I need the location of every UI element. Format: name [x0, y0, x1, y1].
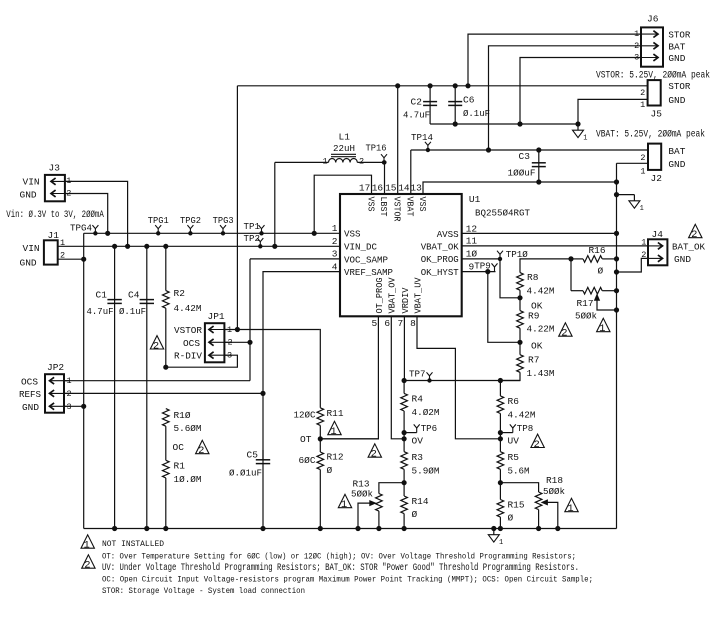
- label J4 GND: [674, 254, 691, 265]
- pin number L1-1: [323, 157, 328, 167]
- svg-text:2: 2: [84, 560, 90, 572]
- svg-text:R11: R11: [327, 408, 344, 419]
- pin number J4-1: [641, 237, 646, 247]
- U1 pin label VBAT (14): [405, 197, 416, 217]
- wire U1 pin15 VSTOR stub: [396, 84, 400, 194]
- pin number J5-1: [640, 100, 645, 110]
- label JP2: [47, 362, 64, 373]
- value R4 4.02M: [412, 407, 440, 418]
- wire VBAT rail: [411, 149, 648, 151]
- resistor R14: [401, 483, 408, 531]
- label J1 VIN: [23, 243, 40, 254]
- pin number JP1-2: [228, 338, 233, 348]
- svg-text:TP16: TP16: [366, 143, 387, 154]
- wire R8 top to R16 node: [520, 257, 573, 273]
- label C3: [519, 151, 531, 162]
- R17 wiper arrow: [595, 295, 619, 313]
- value C1 4.7uF: [87, 306, 114, 317]
- svg-text:2: 2: [332, 236, 338, 247]
- pin number J4-2: [641, 250, 646, 260]
- svg-text:3: 3: [332, 249, 338, 260]
- capacitor C1: [107, 244, 121, 530]
- pin number U1-5: [371, 318, 377, 329]
- label J4 BAT_OK: [672, 241, 705, 252]
- svg-text:Ø.1uF: Ø.1uF: [119, 306, 146, 317]
- test point TP16: [366, 143, 388, 165]
- svg-text:8: 8: [410, 318, 416, 329]
- svg-text:J1: J1: [48, 230, 60, 241]
- value R2 4.42M: [174, 303, 202, 314]
- svg-text:15: 15: [385, 183, 397, 194]
- U1 pin label VOC_SAMP: [344, 254, 388, 265]
- wire OT row: [320, 438, 378, 440]
- svg-text:BAT_OK: BAT_OK: [672, 241, 705, 252]
- IC U1 BQ25504RGT box: [340, 194, 462, 316]
- pin number JP2-1: [67, 376, 72, 386]
- svg-text:STOR: STOR: [668, 81, 690, 92]
- label R7: [528, 354, 539, 365]
- not-installed triangle 2 near R2: [150, 336, 163, 353]
- label C4: [128, 290, 140, 301]
- test point TPG4: [70, 223, 98, 235]
- svg-text:C3: C3: [519, 151, 531, 162]
- value C6 0.1uF: [463, 108, 490, 119]
- svg-text:GND: GND: [674, 254, 691, 265]
- svg-text:1: 1: [323, 157, 328, 167]
- test point TPG1: [148, 215, 169, 235]
- svg-text:1: 1: [84, 540, 90, 552]
- node OV label: [412, 436, 424, 447]
- label C5: [247, 450, 259, 461]
- connector J5: [648, 80, 661, 105]
- resistor R3: [401, 433, 408, 485]
- wire OK_PROG drop to R8 bottom: [500, 259, 520, 298]
- pin number U1-11: [466, 236, 478, 247]
- svg-text:VIN: VIN: [23, 243, 40, 254]
- wire OK_HYST drop to OK node: [488, 272, 520, 343]
- label J1: [48, 230, 60, 241]
- label R12: [327, 452, 344, 463]
- label R8: [527, 272, 539, 283]
- svg-text:VBAT_OV: VBAT_OV: [387, 277, 398, 313]
- svg-text:17: 17: [359, 183, 370, 194]
- label J2: [651, 173, 663, 184]
- value R5 5.6M: [508, 465, 530, 476]
- wire U1 pin11 VBAT_OK to J4: [462, 245, 648, 247]
- svg-text:TP7: TP7: [409, 369, 426, 380]
- U1 pin label VSS (17): [365, 197, 376, 212]
- svg-text:TP8: TP8: [517, 423, 534, 434]
- value R16 0: [598, 266, 604, 277]
- svg-text:TPG4: TPG4: [70, 223, 92, 234]
- svg-text:VBAT: VBAT: [405, 197, 416, 217]
- label J4: [652, 229, 664, 240]
- svg-text:R-DIV: R-DIV: [174, 351, 202, 362]
- svg-text:R4: R4: [412, 394, 424, 405]
- svg-text:5ØØk: 5ØØk: [543, 486, 565, 497]
- test point TP8: [500, 423, 533, 434]
- svg-text:TPG1: TPG1: [148, 215, 169, 226]
- svg-text:TP9: TP9: [474, 261, 491, 272]
- U1 pin label OT_PROG (5): [374, 277, 385, 313]
- svg-text:2: 2: [198, 445, 204, 457]
- label J5 GND: [668, 95, 685, 106]
- pin number J3-2: [66, 188, 71, 198]
- U1 pin label VREF_SAMP: [344, 267, 393, 278]
- connector JP2: [45, 374, 70, 413]
- svg-text:R9: R9: [528, 310, 540, 321]
- svg-text:VSS: VSS: [365, 197, 376, 212]
- wire U1 pin7 VRDIV to TP7 row: [403, 316, 405, 380]
- value L1 22uH: [333, 143, 355, 154]
- label J3 VIN: [23, 177, 40, 188]
- connector J3: [45, 175, 72, 201]
- svg-text:OT: Over Temperature Setting f: OT: Over Temperature Setting for 6ØC (lo…: [102, 552, 576, 562]
- svg-text:TPG3: TPG3: [213, 215, 234, 226]
- svg-text:2: 2: [533, 439, 539, 451]
- value C2 4.7uF: [403, 110, 430, 121]
- svg-text:GND: GND: [22, 402, 39, 413]
- connector J2: [648, 144, 661, 170]
- label JP1: [208, 311, 225, 322]
- svg-text:OK_HYST: OK_HYST: [421, 267, 459, 278]
- svg-text:2: 2: [561, 328, 567, 340]
- label J6: [647, 14, 659, 25]
- pin number JP1-1: [227, 325, 232, 335]
- pin number U1-9: [469, 261, 475, 272]
- pin number U1-7: [397, 318, 403, 329]
- svg-text:TP2: TP2: [244, 233, 261, 244]
- note VBAT rating: [596, 129, 705, 141]
- wire JP1 pin3 to R2/R10 junction: [166, 355, 238, 367]
- value R14 0: [412, 509, 418, 520]
- label R11: [327, 408, 344, 419]
- svg-text:R12: R12: [327, 452, 344, 463]
- capacitor C5: [256, 450, 270, 531]
- not-installed triangle 1 near R13: [338, 494, 351, 511]
- pin number U1-4: [332, 261, 338, 272]
- wire J6 pin3 to ground line: [518, 58, 641, 127]
- svg-text:OK: OK: [531, 340, 543, 351]
- test point TP14: [411, 132, 433, 152]
- pin number U1-8: [410, 318, 416, 329]
- label 60C: [299, 455, 316, 466]
- resistor R8: [517, 273, 524, 300]
- svg-text:OC: Open Circuit Input Voltage: OC: Open Circuit Input Voltage-resistors…: [102, 575, 593, 585]
- svg-text:STOR: Storage Voltage - System: STOR: Storage Voltage - System load conn…: [102, 586, 305, 596]
- svg-text:Ø: Ø: [598, 266, 604, 277]
- U1 pin label VBAT_OV (6): [387, 277, 398, 313]
- wire J3 pin2 to GND row: [65, 194, 110, 236]
- capacitor C6: [448, 84, 462, 126]
- connector JP1: [205, 323, 232, 362]
- svg-text:BAT: BAT: [668, 41, 685, 52]
- U1 pin label VSS: [344, 229, 361, 240]
- note line 1: [102, 552, 576, 562]
- label R3: [412, 452, 424, 463]
- svg-text:JP2: JP2: [47, 362, 64, 373]
- wire JP2 pin3 to GND vertical: [64, 404, 86, 408]
- svg-text:R2: R2: [174, 288, 186, 299]
- svg-text:OK_PROG: OK_PROG: [421, 254, 459, 265]
- label L1: [339, 132, 351, 143]
- test point TPG2: [180, 215, 201, 235]
- value R10 5.60M: [174, 423, 202, 434]
- test point TP10: [497, 249, 528, 261]
- not-installed triangle 1 near R11: [328, 421, 341, 438]
- resistor R4: [401, 381, 408, 435]
- pin number L1-2: [359, 157, 364, 167]
- svg-text:R8: R8: [527, 272, 539, 283]
- wire VSTOR rail: [237, 85, 647, 87]
- label R4: [412, 394, 424, 405]
- svg-text:VBAT_UV: VBAT_UV: [412, 277, 423, 313]
- wire L1 to U1 pin16 (LBST): [383, 161, 386, 194]
- svg-text:6: 6: [384, 318, 390, 329]
- label J6 BAT: [668, 41, 685, 52]
- label J5: [651, 109, 663, 120]
- svg-text:OCS: OCS: [183, 338, 200, 349]
- svg-text:LBST: LBST: [378, 197, 389, 217]
- svg-text:VRDIV: VRDIV: [400, 287, 411, 313]
- resistor R10: [163, 409, 170, 531]
- label J6 STOR: [668, 30, 690, 41]
- capacitor C2: [423, 84, 437, 124]
- svg-text:U1: U1: [469, 194, 481, 205]
- svg-text:1: 1: [640, 100, 645, 110]
- svg-text:C6: C6: [463, 95, 475, 106]
- svg-text:2: 2: [359, 157, 364, 167]
- svg-text:BQ255Ø4RGT: BQ255Ø4RGT: [475, 207, 530, 218]
- pin number U1-1: [332, 223, 338, 234]
- wire JP2 pin2 REFS row: [64, 391, 265, 395]
- node OK lower label: [531, 340, 543, 351]
- pin number J1-1: [60, 238, 65, 248]
- pin number U1-10: [466, 249, 478, 260]
- label J6 GND: [668, 53, 685, 64]
- svg-text:1: 1: [641, 237, 646, 247]
- not-installed triangle 1 near R18: [565, 498, 578, 515]
- svg-text:BAT: BAT: [668, 146, 685, 157]
- svg-text:J5: J5: [651, 109, 663, 120]
- label U1: [469, 194, 481, 205]
- node OT label: [300, 434, 312, 445]
- value R9 4.22M: [527, 324, 555, 335]
- wire U1 pin12 AVSS to bus: [462, 231, 619, 235]
- wire U1 pin8 to UV node: [417, 316, 503, 441]
- resistor R18 potentiometer: [535, 492, 542, 531]
- svg-text:L1: L1: [339, 132, 351, 143]
- value R18 500k: [543, 486, 565, 497]
- label R16: [589, 245, 606, 256]
- label R15: [508, 500, 525, 511]
- svg-text:5: 5: [371, 318, 377, 329]
- label JP2 OCS: [21, 376, 38, 387]
- svg-text:OCS: OCS: [21, 376, 38, 387]
- wire J6 pin1 to VSTOR rail: [466, 34, 641, 88]
- svg-text:C4: C4: [128, 290, 140, 301]
- U1 pin label VSTOR (15): [392, 197, 403, 222]
- svg-text:1ØØuF: 1ØØuF: [508, 168, 536, 179]
- svg-text:1: 1: [567, 503, 573, 515]
- value R15 0: [508, 513, 514, 524]
- svg-text:6ØC: 6ØC: [299, 455, 316, 466]
- wire U1 pin10 OK_PROG: [462, 258, 500, 260]
- svg-text:4.7uF: 4.7uF: [87, 306, 114, 317]
- svg-text:R15: R15: [508, 500, 525, 511]
- wire U1 pin5 to OT node: [318, 316, 378, 441]
- wire J4 pin2 to bus: [614, 258, 648, 274]
- svg-text:1: 1: [583, 135, 587, 143]
- svg-text:14: 14: [398, 183, 410, 194]
- wire U1 pin17 VSS loop to row A: [312, 175, 371, 235]
- wire bottom GND rail: [84, 528, 617, 530]
- wire R16 left link: [571, 259, 583, 291]
- label J2 GND: [668, 159, 685, 170]
- svg-text:C2: C2: [411, 96, 423, 107]
- svg-text:Ø: Ø: [412, 509, 418, 520]
- resistor R11: [317, 408, 324, 439]
- svg-text:VSS: VSS: [344, 229, 361, 240]
- svg-text:1: 1: [330, 426, 336, 438]
- pin number J6-3: [634, 53, 639, 63]
- wire R5/R15 junction to R18: [500, 483, 538, 492]
- resistor R9: [517, 298, 524, 345]
- pin number U1-13: [410, 183, 422, 194]
- svg-text:VIN: VIN: [23, 177, 40, 188]
- pin number U1-14: [398, 183, 410, 194]
- pin number U1-3: [332, 249, 338, 260]
- label JP1 VSTOR: [174, 325, 202, 336]
- not-installed triangle 2 near R9: [559, 323, 572, 340]
- label J3 GND: [20, 190, 37, 201]
- svg-text:R5: R5: [508, 452, 520, 463]
- U1 pin label VSS (13): [417, 197, 428, 212]
- pin number J5-2: [640, 88, 645, 98]
- svg-text:4: 4: [332, 261, 338, 272]
- pin number J1-2: [60, 251, 65, 261]
- svg-text:4.42M: 4.42M: [527, 286, 555, 297]
- wire bus ground branch: [614, 193, 634, 197]
- resistor R2: [163, 244, 170, 369]
- label R9: [528, 310, 540, 321]
- pin number J6-1: [634, 29, 639, 39]
- pin number J3-1: [66, 176, 71, 186]
- wire right GND bus: [616, 163, 618, 528]
- svg-text:UV: Under Voltage Threshold Pr: UV: Under Voltage Threshold Programming …: [102, 562, 579, 574]
- wire U1 pin14 VBAT stub: [410, 150, 412, 194]
- svg-text:1: 1: [640, 166, 645, 176]
- svg-text:TP14: TP14: [411, 132, 433, 143]
- label R1: [174, 461, 186, 472]
- svg-text:1: 1: [640, 205, 644, 213]
- svg-text:2: 2: [691, 229, 697, 241]
- test point TP1: [244, 221, 265, 235]
- svg-text:Ø.1uF: Ø.1uF: [463, 108, 490, 119]
- svg-text:R14: R14: [412, 496, 429, 507]
- svg-text:REFS: REFS: [19, 389, 41, 400]
- not-installed triangle 2 near UV: [531, 434, 544, 451]
- label 120C: [294, 410, 316, 421]
- svg-text:GND: GND: [668, 95, 685, 106]
- svg-text:VIN_DC: VIN_DC: [344, 242, 377, 253]
- pin number JP1-3: [227, 351, 232, 361]
- svg-text:1: 1: [341, 499, 347, 511]
- svg-text:2: 2: [153, 341, 159, 353]
- wire cap ground line: [430, 123, 578, 125]
- pin number U1-2: [332, 236, 338, 247]
- R18 wiper arrow: [542, 500, 560, 531]
- wire U1 pin4 to REFS/C5: [263, 272, 340, 460]
- wire J6 pin2 to VBAT rail: [486, 46, 641, 152]
- pin number U1-17: [359, 183, 370, 194]
- connector J1: [44, 240, 58, 264]
- legend triangle 2: [82, 555, 95, 572]
- U1 pin label VRDIV (7): [400, 287, 411, 313]
- svg-text:22uH: 22uH: [333, 143, 355, 154]
- pin number U1-16: [372, 183, 384, 194]
- wire JP1 pin1 to R11 top: [224, 330, 320, 408]
- note Vin range: [6, 209, 104, 221]
- not-installed triangle 2 near OC: [196, 440, 209, 457]
- svg-text:GND: GND: [668, 53, 685, 64]
- svg-text:2: 2: [640, 153, 645, 163]
- svg-text:4.42M: 4.42M: [174, 303, 202, 314]
- note VSTOR rating: [596, 70, 710, 82]
- value R8 4.42M: [527, 286, 555, 297]
- wire J2 pin1 to bus: [617, 162, 649, 164]
- label JP1 OCS: [183, 338, 200, 349]
- capacitor C4: [140, 244, 154, 530]
- svg-text:5ØØk: 5ØØk: [351, 488, 373, 499]
- wire JP2 pin1 OCS row: [64, 380, 250, 382]
- value R6 4.42M: [508, 409, 536, 420]
- svg-text:13: 13: [410, 183, 422, 194]
- svg-text:VBAT_OK: VBAT_OK: [421, 241, 459, 252]
- value C5 0.01uF: [229, 468, 262, 479]
- svg-text:R16: R16: [589, 245, 606, 256]
- resistor R7: [500, 342, 523, 380]
- svg-text:5ØØk: 5ØØk: [575, 310, 597, 321]
- svg-text:R3: R3: [412, 452, 424, 463]
- U1 pin label VBAT_UV (8): [412, 277, 423, 313]
- wire U1 pin9 OK_HYST: [462, 270, 496, 274]
- label C6: [463, 95, 475, 106]
- legend triangle 1: [81, 535, 94, 552]
- value R1 10.0M: [174, 474, 202, 485]
- wire R3/R14 junction to R13: [379, 483, 404, 494]
- wire J3 pin1 to VIN row: [65, 181, 130, 248]
- U1 pin label OK_PROG: [421, 254, 459, 265]
- svg-text:1: 1: [332, 223, 338, 234]
- inductor L1: [273, 154, 385, 248]
- wire U1 pin6 to OV node: [391, 316, 406, 441]
- resistor R16: [583, 256, 619, 263]
- connector J4: [648, 239, 667, 265]
- wire OCS vertical (U1 pin3 to OCS row): [249, 259, 251, 381]
- svg-text:VSTOR: VSTOR: [392, 197, 403, 222]
- svg-text:UV: UV: [508, 436, 520, 447]
- value C3 100uF: [508, 168, 536, 179]
- svg-text:NOT INSTALLED: NOT INSTALLED: [102, 539, 164, 549]
- value U1 BQ25504RGT: [475, 207, 530, 218]
- not-installed triangle 2 near J4: [689, 224, 702, 241]
- value R13 500k: [351, 488, 373, 499]
- svg-text:5.6ØM: 5.6ØM: [174, 423, 202, 434]
- label J2 BAT: [668, 146, 685, 157]
- svg-text:R7: R7: [528, 354, 539, 365]
- svg-text:OC: OC: [173, 442, 185, 453]
